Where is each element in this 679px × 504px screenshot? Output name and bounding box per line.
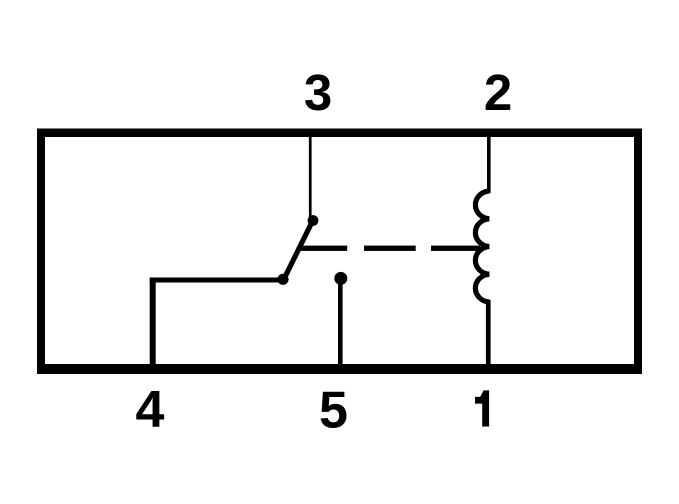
- node: pin 5 armature dot: [334, 272, 347, 285]
- relay case outline (left border): [37, 129, 45, 375]
- switch blade (movable contact arm): [283, 218, 314, 281]
- mechanical linkage dash 3: [431, 246, 480, 251]
- wire: pin 4 riser down to bottom border: [150, 278, 156, 365]
- wire: horizontal run from pin 4 riser to blade contact: [150, 278, 286, 283]
- svg-text:5: 5: [319, 382, 348, 440]
- wire: pin 5 lead up from bottom border: [338, 280, 343, 364]
- wire: pin 3 lead from top border to common contact: [309, 137, 312, 217]
- svg-text:4: 4: [136, 381, 165, 439]
- relay case outline (right border): [634, 129, 642, 375]
- svg-text:2: 2: [484, 64, 512, 121]
- pin label 1: [475, 390, 489, 426]
- relay case outline (top border): [37, 129, 642, 138]
- relay case outline (bottom border): [37, 364, 642, 374]
- node: blade end contact dot: [277, 274, 288, 285]
- wire: coil bottom lead to bottom border (pin 1): [486, 300, 491, 364]
- wire: pin 2 lead from top border to coil top: [487, 137, 491, 193]
- mechanical linkage dash 2: [364, 246, 416, 251]
- svg-text:3: 3: [304, 64, 332, 121]
- mechanical linkage dash 1: [298, 246, 347, 251]
- coil L1 (relay coil, 4 half-turns): [475, 191, 489, 302]
- node: switch common contact dot: [308, 215, 319, 226]
